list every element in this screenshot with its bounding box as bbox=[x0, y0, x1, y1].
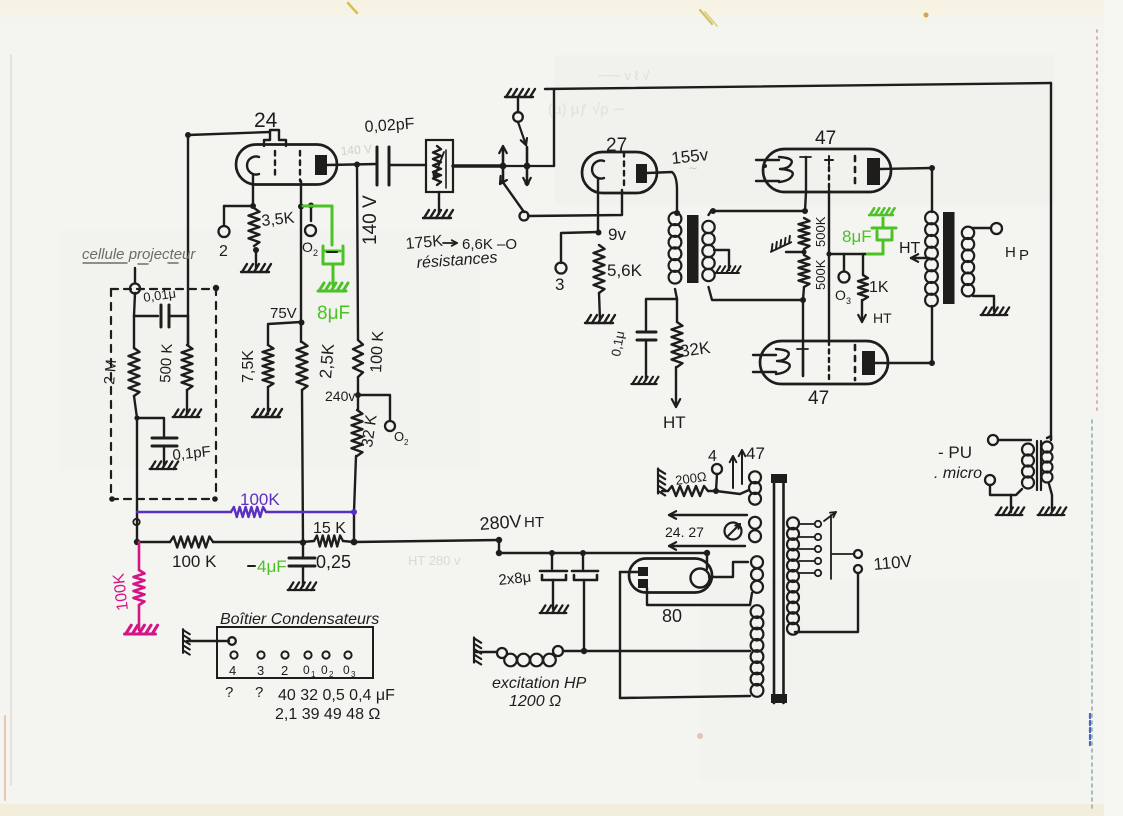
svg-text:4: 4 bbox=[229, 663, 236, 678]
svg-text:110V: 110V bbox=[873, 552, 914, 574]
svg-text:9v: 9v bbox=[608, 225, 626, 244]
svg-text:0: 0 bbox=[343, 663, 350, 677]
svg-text:2: 2 bbox=[281, 663, 288, 678]
svg-text:2 M: 2 M bbox=[101, 359, 120, 385]
svg-text:0,02pF: 0,02pF bbox=[364, 116, 415, 136]
svg-text:500K: 500K bbox=[813, 259, 828, 290]
svg-text:3: 3 bbox=[257, 663, 264, 678]
svg-text:8μF: 8μF bbox=[842, 227, 872, 246]
svg-text:(µ) µƒ √ρ ∼: (µ) µƒ √ρ ∼ bbox=[548, 101, 625, 118]
svg-text:1: 1 bbox=[311, 670, 316, 679]
svg-text:7,5K: 7,5K bbox=[240, 350, 257, 383]
svg-text:75V: 75V bbox=[270, 305, 297, 322]
svg-text:0: 0 bbox=[321, 663, 328, 677]
svg-text:O: O bbox=[302, 239, 313, 255]
svg-text:2,5K: 2,5K bbox=[316, 342, 338, 379]
svg-text:~~~ v ℓ √: ~~~ v ℓ √ bbox=[598, 68, 650, 83]
svg-text:0,25: 0,25 bbox=[316, 552, 351, 572]
svg-text:HT: HT bbox=[873, 310, 892, 326]
svg-text:H: H bbox=[1005, 244, 1016, 261]
svg-text:47: 47 bbox=[815, 128, 836, 149]
svg-text:- PU: - PU bbox=[938, 443, 972, 462]
svg-text:24. 27: 24. 27 bbox=[665, 524, 704, 540]
svg-text:cellule projecteur: cellule projecteur bbox=[82, 246, 196, 263]
svg-text:100 K: 100 K bbox=[172, 552, 217, 571]
svg-text:5,6K: 5,6K bbox=[607, 261, 643, 280]
svg-text:47: 47 bbox=[746, 444, 765, 463]
svg-text:24: 24 bbox=[254, 109, 278, 132]
svg-text:O: O bbox=[394, 429, 404, 444]
svg-text:1K: 1K bbox=[869, 279, 889, 296]
svg-text:175K: 175K bbox=[405, 233, 444, 253]
svg-text:47: 47 bbox=[808, 388, 829, 409]
svg-text:140 V: 140 V bbox=[340, 142, 372, 158]
svg-text:8μF: 8μF bbox=[317, 303, 350, 324]
svg-text:1200 Ω: 1200 Ω bbox=[509, 693, 561, 710]
svg-text:3: 3 bbox=[351, 670, 356, 679]
svg-text:3: 3 bbox=[555, 275, 564, 294]
svg-text:155v: 155v bbox=[670, 145, 709, 168]
svg-text:100K: 100K bbox=[240, 490, 280, 509]
svg-text:2: 2 bbox=[313, 248, 318, 258]
svg-text:2x8μ: 2x8μ bbox=[498, 569, 532, 589]
svg-text:2,1 39 49 48 Ω: 2,1 39 49 48 Ω bbox=[275, 706, 380, 723]
svg-text:3,5K: 3,5K bbox=[261, 210, 296, 230]
svg-text:4μF: 4μF bbox=[257, 557, 287, 576]
svg-text:80: 80 bbox=[662, 606, 682, 626]
svg-text:280V: 280V bbox=[479, 511, 522, 534]
svg-text:?: ? bbox=[255, 684, 263, 701]
svg-text:15 K: 15 K bbox=[313, 520, 346, 537]
svg-text:3: 3 bbox=[846, 296, 851, 306]
svg-text:. micro: . micro bbox=[934, 465, 982, 482]
svg-text:500K: 500K bbox=[813, 216, 828, 247]
svg-text:240v: 240v bbox=[325, 388, 355, 404]
svg-text:500 K: 500 K bbox=[157, 343, 176, 383]
svg-text:HT: HT bbox=[524, 514, 544, 531]
svg-text:0: 0 bbox=[303, 663, 310, 677]
svg-text:2: 2 bbox=[219, 243, 228, 260]
svg-text:Boîtier Condensateurs: Boîtier Condensateurs bbox=[220, 611, 379, 628]
svg-text:HT 280 v: HT 280 v bbox=[408, 553, 461, 568]
svg-text:4: 4 bbox=[708, 448, 717, 465]
svg-text:?: ? bbox=[225, 684, 233, 701]
svg-text:2: 2 bbox=[329, 670, 334, 679]
svg-text:O: O bbox=[835, 287, 846, 303]
svg-text:2: 2 bbox=[404, 438, 409, 447]
svg-text:P: P bbox=[1019, 247, 1029, 264]
svg-text:40 32 0,5 0,4 μF: 40 32 0,5 0,4 μF bbox=[278, 687, 395, 704]
svg-text:excitation HP: excitation HP bbox=[492, 675, 587, 692]
svg-text:100 K: 100 K bbox=[368, 330, 387, 373]
svg-text:HT: HT bbox=[663, 413, 686, 432]
svg-text:140 V: 140 V bbox=[360, 195, 381, 245]
